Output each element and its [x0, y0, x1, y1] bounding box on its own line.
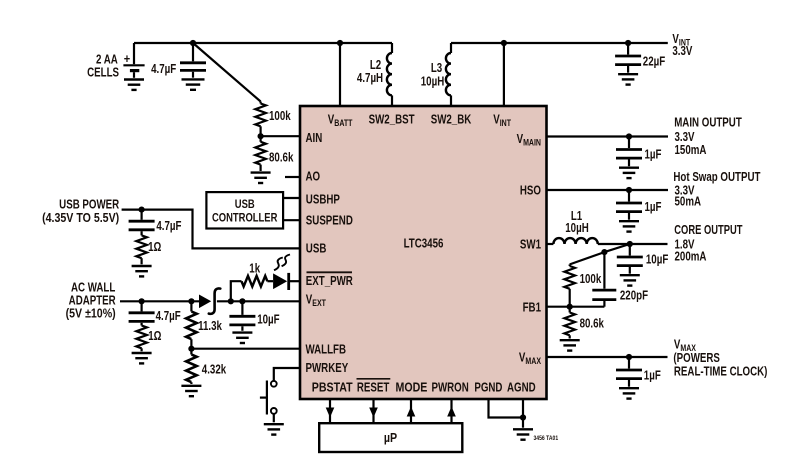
svg-text:80.6k: 80.6k: [580, 318, 605, 331]
resistor 100k feedback: [564, 264, 575, 306]
diode D1 schottky: [199, 288, 220, 313]
wire VEXT left segment: [120, 300, 199, 302]
svg-text:PWRON: PWRON: [431, 382, 468, 395]
node HSO: [626, 187, 632, 193]
svg-text:1Ω: 1Ω: [148, 241, 161, 254]
wire SW1 to L1: [547, 243, 554, 245]
svg-text:1k: 1k: [249, 262, 261, 275]
capacitor 4.7uF USB: [129, 210, 155, 236]
node WALLFB: [188, 346, 194, 352]
svg-text:4.7µF: 4.7µF: [156, 220, 181, 233]
svg-text:3.3V: 3.3V: [672, 45, 692, 58]
capacitor 10uF core: [617, 244, 643, 286]
svg-text:CONTROLLER: CONTROLLER: [212, 212, 278, 225]
svg-text:(5V ±10%): (5V ±10%): [66, 307, 116, 321]
wire AO stub: [285, 176, 300, 178]
USB controller box: [206, 192, 283, 228]
svg-text:1Ω: 1Ω: [148, 330, 161, 343]
svg-text:80.6k: 80.6k: [269, 151, 294, 164]
wire USBHP: [283, 197, 300, 199]
node AC cap junction: [139, 298, 145, 304]
svg-text:HSO: HSO: [520, 185, 541, 198]
svg-text:USB POWER: USB POWER: [59, 198, 119, 211]
wire VMAIN output: [547, 135, 669, 137]
svg-text:100k: 100k: [580, 273, 602, 286]
wire PBSTAT to uP: [329, 399, 331, 424]
wire AGND: [522, 399, 524, 428]
svg-text:USBHP: USBHP: [306, 194, 341, 207]
ground battery: [124, 80, 144, 90]
svg-text:10µH: 10µH: [565, 222, 588, 235]
svg-text:+: +: [124, 51, 130, 66]
svg-text:µP: µP: [384, 430, 397, 445]
svg-text:LTC3456: LTC3456: [404, 238, 444, 251]
wire AIN: [261, 135, 300, 137]
resistor 11.3k: [186, 301, 197, 348]
svg-text:USB: USB: [306, 242, 327, 255]
svg-text:Hot Swap OUTPUT: Hot Swap OUTPUT: [673, 171, 760, 184]
svg-text:1µF: 1µF: [645, 149, 662, 162]
wire FB1: [547, 306, 605, 308]
svg-text:200mA: 200mA: [675, 250, 707, 263]
svg-text:AO: AO: [306, 170, 321, 183]
svg-text:AGND: AGND: [507, 382, 536, 395]
battery BT1 2 AA cells: [123, 43, 144, 78]
node VINT pin junction: [501, 40, 507, 46]
svg-text:PBSTAT: PBSTAT: [312, 381, 353, 395]
ground pushbutton: [264, 424, 284, 434]
svg-text:PWRKEY: PWRKEY: [306, 362, 349, 375]
node VBATT rail junction: [337, 40, 343, 46]
capacitor 10uF VEXT: [229, 301, 255, 331]
node fbtop: [601, 249, 607, 255]
wire VBATT: [339, 43, 341, 106]
capacitor 1uF VMAIN: [616, 137, 642, 179]
svg-text:SUSPEND: SUSPEND: [306, 215, 353, 228]
svg-text:100k: 100k: [269, 110, 291, 123]
wire diagonal fbtop to 100k: [570, 252, 605, 264]
ground 4.32k: [181, 386, 201, 396]
wire riser to 1k: [231, 281, 242, 301]
wire VEXT right segment: [217, 300, 300, 302]
svg-text:PGND: PGND: [474, 382, 502, 395]
svg-text:22µF: 22µF: [643, 56, 666, 69]
resistor R1 100k: [255, 102, 266, 137]
node AGND: [520, 414, 526, 420]
capacitor 22uF with ground: [615, 43, 641, 85]
svg-text:REAL-TIME CLOCK): REAL-TIME CLOCK): [674, 365, 768, 378]
svg-text:2 AA: 2 AA: [96, 54, 118, 67]
node core output: [627, 241, 633, 247]
svg-text:10µF: 10µF: [646, 254, 669, 267]
IC U1 LTC3456 body: [300, 106, 547, 399]
svg-text:3.3V: 3.3V: [675, 131, 695, 144]
resistor 1ohm AC: [136, 326, 147, 352]
microprocessor uP box: [319, 423, 462, 452]
svg-text:4.7µF: 4.7µF: [156, 310, 181, 323]
wire USB power: [122, 210, 300, 249]
LED D2: [273, 255, 300, 291]
svg-text:4.7µF: 4.7µF: [151, 63, 176, 76]
resistor 1k: [241, 276, 273, 287]
svg-text:EXT_PWR: EXT_PWR: [306, 275, 353, 288]
wire VINT pin: [503, 43, 505, 106]
capacitor C1 4.7uF: [180, 43, 206, 78]
svg-text:AC WALL: AC WALL: [71, 281, 115, 294]
inductor L1 10uH: [553, 238, 597, 244]
wire SUSPEND: [283, 219, 300, 221]
svg-text:L2: L2: [370, 59, 381, 72]
svg-text:SW2_BK: SW2_BK: [431, 113, 472, 126]
svg-text:WALLFB: WALLFB: [306, 343, 347, 356]
inductor L3 10uH: [446, 43, 451, 106]
capacitor 1uF VMAX: [616, 357, 642, 399]
resistor R2 80.6k: [255, 136, 266, 171]
pushbutton S1: [260, 381, 277, 423]
wire diagonal core to fbtop: [604, 244, 629, 252]
svg-text:RESET: RESET: [357, 382, 390, 395]
svg-text:11.3k: 11.3k: [198, 320, 222, 333]
svg-text:MAIN OUTPUT: MAIN OUTPUT: [674, 117, 742, 130]
svg-text:(POWERS: (POWERS: [673, 352, 720, 365]
wire WALLFB: [191, 348, 300, 350]
svg-text:(4.35V TO 5.5V): (4.35V TO 5.5V): [42, 211, 119, 225]
svg-text:3456 TA01: 3456 TA01: [534, 435, 559, 442]
svg-text:SW2_BST: SW2_BST: [369, 113, 415, 126]
resistor 80.6k feedback: [564, 307, 575, 339]
node battery rail junction: [190, 40, 196, 46]
wire RESET to uP: [372, 399, 374, 424]
node VMAIN: [626, 133, 632, 139]
node 22uF junction: [625, 40, 631, 46]
svg-text:SW1: SW1: [520, 239, 541, 252]
ground 10uF VEXT: [232, 333, 252, 343]
resistor 4.32k: [186, 349, 197, 384]
wire PWRKEY to button: [274, 368, 300, 381]
wire MODE from uP: [410, 399, 412, 424]
svg-text:10µF: 10µF: [257, 314, 280, 327]
svg-text:1µF: 1µF: [645, 201, 662, 214]
wire PWRON from uP: [450, 399, 452, 424]
node 1k branch junction: [228, 298, 234, 304]
svg-text:FB1: FB1: [523, 301, 541, 314]
svg-text:MODE: MODE: [395, 381, 427, 395]
wire top rail L3 to VINT output: [451, 42, 668, 44]
node AIN: [258, 133, 264, 139]
svg-text:CELLS: CELLS: [87, 66, 119, 79]
node FB1: [567, 304, 573, 310]
ground C1: [182, 79, 205, 89]
svg-text:10µH: 10µH: [421, 75, 444, 88]
wire HSO output: [547, 189, 669, 191]
svg-text:4.32k: 4.32k: [202, 363, 227, 376]
ground 1ohm USB: [132, 266, 152, 276]
wire L1 to core output: [598, 243, 668, 245]
capacitor 1uF HSO: [616, 190, 642, 232]
svg-text:4.7µH: 4.7µH: [357, 72, 383, 85]
node USB cap junction: [139, 207, 145, 213]
wire diagonal rail to R1: [193, 43, 261, 102]
ground 80.6k feedback: [560, 340, 580, 350]
wire top rail battery to L2: [134, 42, 392, 44]
node VMAX: [626, 354, 632, 360]
node diode anode junction: [188, 298, 194, 304]
svg-text:AIN: AIN: [306, 132, 323, 145]
wire PGND: [489, 399, 524, 418]
svg-text:L3: L3: [431, 62, 442, 75]
ground 1ohm AC: [132, 353, 152, 363]
ground AGND: [513, 429, 533, 439]
svg-text:220pF: 220pF: [620, 289, 648, 302]
node 10uF VEXT junction: [239, 298, 245, 304]
capacitor 220pF: [592, 252, 616, 307]
svg-text:CORE OUTPUT: CORE OUTPUT: [674, 224, 742, 238]
svg-text:50mA: 50mA: [675, 195, 702, 208]
svg-text:150mA: 150mA: [675, 144, 707, 157]
inductor L2 4.7uH: [387, 43, 392, 106]
svg-text:USB: USB: [235, 198, 255, 211]
capacitor 4.7uF AC: [129, 301, 155, 325]
wire VMAX output: [547, 356, 668, 358]
ground R2: [251, 173, 271, 183]
resistor 1ohm USB: [136, 235, 147, 264]
svg-text:1µF: 1µF: [644, 369, 661, 382]
